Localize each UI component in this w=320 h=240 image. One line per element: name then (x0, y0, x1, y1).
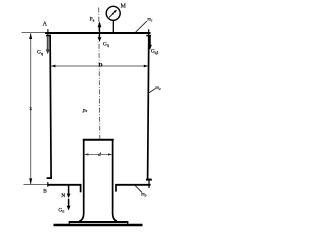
left flange down hook (80, 185, 82, 192)
force Gc left arrow (47, 37, 49, 51)
right bell wall (148, 35, 149, 180)
node A tick (47, 29, 49, 35)
svg-text:B: B (43, 189, 47, 195)
svg-text:N: N (61, 193, 65, 199)
leader m3 (135, 185, 142, 192)
leader m2 (148, 89, 155, 94)
upper base slab (69, 221, 129, 223)
svg-text:A: A (43, 21, 48, 27)
dimension D line (51, 65, 148, 67)
right bell wall bottom foot (146, 179, 152, 181)
centerline axis (99, 8, 100, 140)
pedestal left wall with flare (79, 139, 83, 221)
manometer needle (109, 11, 116, 18)
force Pa arrow (99, 25, 101, 33)
top plate (45, 32, 150, 34)
svg-text:pх: pх (82, 108, 88, 114)
right flange down hook (115, 185, 117, 192)
svg-text:M: M (121, 4, 126, 10)
svg-text:m1: m1 (147, 17, 152, 22)
node A tick right (148, 29, 150, 35)
force N arrow (68, 186, 70, 195)
svg-text:D: D (99, 62, 103, 68)
pedestal top plate (83, 139, 114, 141)
manometer U1 stem (112, 20, 114, 34)
B-level extension line (24, 184, 49, 186)
node B tick right (148, 181, 150, 189)
svg-text:m3: m3 (141, 192, 146, 197)
right tank flange (115, 184, 150, 186)
svg-text:m2: m2 (155, 86, 160, 91)
left height dimension line (30, 33, 32, 184)
node B tick (47, 182, 49, 187)
left tank flange (48, 184, 82, 186)
dimension d line (85, 153, 112, 155)
pedestal right wall with flare (113, 139, 117, 221)
force Gc center arrow (99, 34, 101, 38)
manometer U1 body (106, 6, 120, 20)
left bell wall top hook (46, 35, 51, 37)
left bell wall bottom foot (47, 177, 52, 179)
A-level extension line (22, 31, 47, 33)
leader m1 (136, 21, 147, 32)
force Gp arrow (68, 199, 70, 206)
left bell wall (50, 35, 51, 179)
svg-text:x: x (29, 106, 32, 112)
right bell wall top hook (146, 35, 151, 37)
lower base slab / ground (54, 224, 143, 226)
force Gc1 right arrow (149, 36, 151, 46)
